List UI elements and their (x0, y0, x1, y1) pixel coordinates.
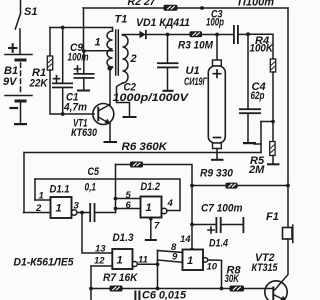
label C1 plus (54, 76, 60, 82)
svg-text:1: 1 (117, 255, 123, 267)
svg-text:D1.3: D1.3 (113, 232, 134, 244)
gate D1.2 (141, 197, 167, 218)
wire pin89 vertical (157, 251, 159, 289)
wire R8 to VT2 (244, 288, 272, 290)
wire top rail (83, 7, 288, 9)
svg-text:КТ315: КТ315 (252, 262, 279, 274)
transformer T1 primary winding (107, 28, 113, 105)
wire pin7 (150, 218, 152, 240)
svg-text:1: 1 (187, 255, 193, 267)
resistor R2 (164, 5, 178, 11)
wire pin8 (158, 251, 183, 253)
label U1 plus (213, 70, 220, 77)
wire R1 to base rail (50, 70, 94, 114)
diode VD1 (140, 31, 168, 39)
wire C3 node to R4 (248, 34, 273, 59)
transformer T1 secondary winding (117, 35, 140, 119)
svg-text:2M: 2M (248, 164, 265, 176)
wire pin12 (91, 265, 112, 267)
resistor R5 (270, 142, 275, 156)
gate D1.1 (51, 197, 77, 218)
node C2 junction (166, 33, 170, 37)
capacitor C7 (192, 217, 244, 233)
transducer F1 (275, 225, 293, 290)
svg-text:4: 4 (167, 198, 174, 209)
node C1 tap (61, 26, 65, 30)
wire to R3 (168, 34, 190, 36)
wire pin3 (77, 212, 90, 214)
switch S1 (15, 0, 20, 54)
node pin14 entry (190, 248, 194, 252)
svg-text:КТ630: КТ630 (71, 127, 98, 139)
wire inner loop vertical (34, 179, 36, 200)
gate D1.3 (112, 249, 137, 269)
resistor R4 (270, 59, 275, 72)
node C1 bottom (61, 112, 65, 116)
svg-text:СИ19Г: СИ19Г (184, 76, 208, 88)
svg-text:R6 360K: R6 360K (122, 141, 169, 153)
node top junction (200, 6, 204, 10)
wire pin11 (137, 263, 157, 265)
wire pin4 (35, 179, 180, 211)
wire bottom rail (90, 266, 92, 300)
battery B1 (5, 55, 32, 126)
node C4 junction (246, 32, 250, 36)
resistor R7 (110, 286, 123, 292)
svg-text:1: 1 (146, 202, 152, 214)
wire pin5 (116, 198, 141, 200)
svg-text:R9 330: R9 330 (200, 168, 234, 180)
svg-text:S1: S1 (24, 6, 37, 18)
capacitor C9 (74, 51, 95, 92)
label C9 plus (75, 66, 81, 72)
wire tap to winding (84, 50, 113, 52)
wire R5 ground (272, 156, 274, 164)
svg-text:1: 1 (56, 203, 62, 215)
svg-text:T1: T1 (115, 14, 128, 26)
label battery minus (11, 107, 18, 109)
resistor R9 (226, 183, 238, 189)
svg-text:R7 16K: R7 16K (103, 272, 138, 284)
capacitor C2 (157, 35, 179, 92)
node C4 bottom junction (271, 120, 275, 124)
capacitor C6 (134, 291, 140, 300)
wire pin10 (208, 260, 222, 289)
wire R7 to R8 (123, 288, 230, 290)
svg-text:62p: 62p (251, 90, 265, 102)
svg-text:1: 1 (95, 37, 101, 49)
gate D1.4 (183, 250, 208, 271)
wire outer loop (23, 153, 25, 213)
wire R1 branch (49, 28, 51, 57)
svg-text:0,1: 0,1 (85, 182, 97, 194)
svg-text:4,7m: 4,7m (63, 102, 87, 114)
node pin11 (156, 262, 160, 266)
label C7 plus (208, 227, 214, 233)
label battery plus (9, 44, 17, 52)
node pin3 branch (80, 211, 84, 215)
svg-text:C5: C5 (88, 166, 100, 178)
wire C4 node vertical (260, 122, 262, 153)
wire R6 (116, 164, 131, 166)
node C7 branch (190, 223, 194, 227)
transformer T1 core (116, 30, 119, 75)
resistor R1 (47, 56, 52, 70)
svg-text:13: 13 (95, 244, 106, 255)
resistor R8 (230, 286, 245, 292)
wire pin13 (82, 213, 112, 254)
svg-text:9: 9 (172, 252, 178, 263)
svg-text:F1: F1 (266, 211, 279, 223)
node pin6 (114, 207, 118, 211)
svg-text:10: 10 (207, 262, 218, 273)
node R9 branch (190, 184, 194, 188)
svg-text:7: 7 (154, 221, 160, 232)
node winding start dot (107, 66, 112, 71)
svg-text:14: 14 (180, 234, 191, 245)
capacitor C5 (89, 203, 115, 222)
svg-text:D1.2: D1.2 (141, 181, 161, 193)
svg-text:1000p/1000V: 1000p/1000V (113, 92, 190, 104)
svg-text:100m: 100m (68, 52, 89, 64)
transistor VT2 (265, 281, 287, 300)
wire C4 bar to R4R5 node (254, 143, 261, 145)
svg-text:100p: 100p (206, 17, 224, 29)
wire pin9 (158, 260, 183, 262)
wire R4 to R5 (272, 72, 274, 142)
svg-text:11: 11 (138, 255, 148, 266)
svg-text:12: 12 (94, 256, 105, 267)
wire supply horizontal y27 (50, 27, 113, 29)
wire C9 drop from top rail (83, 8, 85, 51)
svg-text:D1.1: D1.1 (50, 184, 70, 196)
wire pin2 (24, 212, 51, 214)
node pin10 bottom (220, 287, 224, 291)
svg-text:3: 3 (74, 201, 80, 212)
svg-text:1: 1 (39, 191, 44, 202)
node pin7 (149, 217, 153, 221)
node U1 junction (215, 33, 219, 37)
resistor R6 (130, 162, 143, 168)
svg-text:6: 6 (126, 200, 132, 211)
resistor R3 (190, 31, 203, 37)
wire node to R4R5 (261, 121, 273, 123)
transistor VT1 (93, 104, 117, 144)
wire pin1 (35, 199, 51, 201)
svg-text:D1.4: D1.4 (209, 238, 228, 250)
svg-text:D1-К561ЛЕ5: D1-К561ЛЕ5 (14, 257, 75, 269)
wire R3 to C3 node (202, 34, 218, 36)
capacitor C4 (239, 34, 261, 144)
svg-text:30K: 30K (225, 273, 240, 285)
svg-text:C6 0,015: C6 0,015 (142, 290, 187, 300)
capacitor C1 (52, 28, 73, 115)
wire pin6 (116, 208, 141, 210)
svg-text:22K: 22K (29, 78, 49, 90)
lamp U1 (208, 35, 225, 161)
svg-text:100K: 100K (250, 43, 274, 55)
label U1 minus (214, 137, 221, 139)
wire mid rail y152 (24, 152, 261, 154)
wire R9 (192, 185, 226, 187)
capacitor C3 (217, 25, 248, 44)
node pin5 (114, 197, 118, 201)
svg-text:R2 27: R2 27 (128, 0, 157, 8)
node tap junction (82, 49, 86, 53)
node R9 right (286, 184, 290, 188)
svg-text:П100m: П100m (238, 0, 274, 9)
wire right vertical (287, 8, 289, 228)
svg-text:2: 2 (35, 203, 42, 214)
svg-text:C7 100m: C7 100m (201, 203, 243, 215)
wire pins56 vertical (115, 165, 117, 213)
svg-text:2: 2 (130, 53, 137, 65)
node R7 node (89, 287, 93, 291)
svg-text:VD1 КД411: VD1 КД411 (136, 17, 190, 29)
svg-text:R3 10M: R3 10M (178, 40, 214, 52)
svg-text:9V: 9V (3, 76, 18, 88)
